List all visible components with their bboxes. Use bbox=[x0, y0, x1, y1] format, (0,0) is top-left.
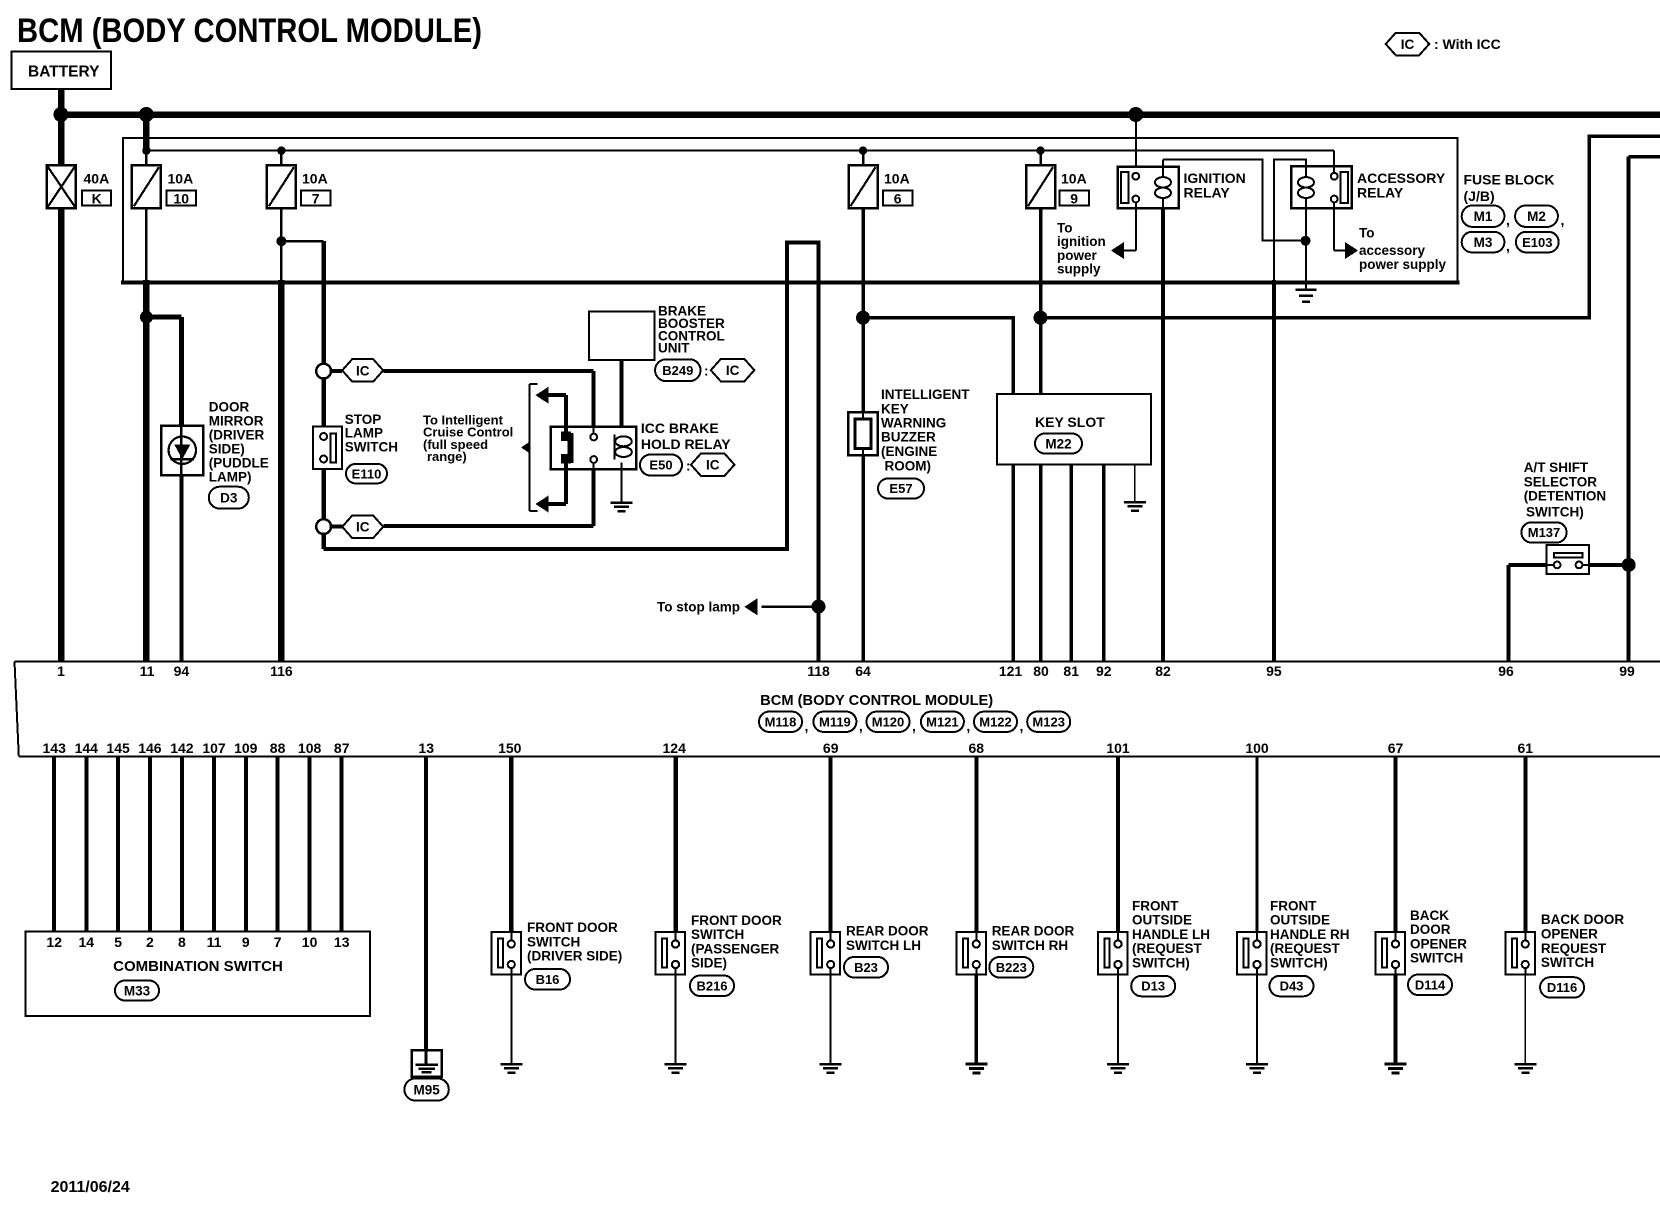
svg-text:10A: 10A bbox=[1061, 171, 1087, 187]
comma 3 bbox=[1506, 238, 1510, 254]
svg-text:To: To bbox=[1359, 226, 1375, 241]
svg-text:9: 9 bbox=[1070, 190, 1078, 206]
svg-text:FRONT DOOR: FRONT DOOR bbox=[527, 920, 618, 935]
fuse 9 10A bbox=[1026, 151, 1089, 209]
connector M121 bbox=[921, 712, 964, 732]
svg-text:IC: IC bbox=[1401, 37, 1415, 52]
svg-text:BCM (BODY CONTROL MODULE): BCM (BODY CONTROL MODULE) bbox=[760, 693, 993, 709]
svg-text:96: 96 bbox=[1498, 663, 1514, 679]
fuse 7 10A bbox=[267, 151, 331, 209]
svg-text:E110: E110 bbox=[352, 466, 382, 481]
svg-text:,: , bbox=[1506, 238, 1510, 254]
svg-text:ignition: ignition bbox=[1057, 234, 1106, 249]
svg-text:IC: IC bbox=[706, 458, 720, 473]
front outside handle LH switch symbol bbox=[1098, 898, 1210, 974]
wire ignition coil top ground link bbox=[1163, 160, 1306, 241]
legend IC with-ICC hexagon bbox=[1386, 33, 1501, 56]
wire fuse7 to pin 116 bbox=[280, 208, 283, 661]
svg-text:accessory: accessory bbox=[1359, 243, 1426, 258]
wire AT selector to pin 96 bbox=[1509, 565, 1547, 662]
svg-text::: : bbox=[704, 364, 709, 379]
wire buzzer to pin 64 bbox=[861, 455, 865, 661]
svg-text:6: 6 bbox=[894, 190, 902, 206]
svg-text:KEY: KEY bbox=[881, 401, 909, 416]
svg-text:99: 99 bbox=[1619, 663, 1635, 679]
svg-text:(PUDDLE: (PUDDLE bbox=[209, 455, 269, 470]
svg-text:SWITCH RH: SWITCH RH bbox=[992, 938, 1068, 953]
wire relay contact top arrow bbox=[536, 387, 566, 432]
comma m2 bbox=[912, 718, 916, 734]
node bus junction fuse9 bbox=[1034, 311, 1048, 325]
wire strip to front outside handle RH bbox=[1256, 757, 1259, 933]
wire key slot pin 81 bbox=[1069, 464, 1073, 661]
colon 1 bbox=[704, 364, 709, 379]
svg-text:M122: M122 bbox=[979, 714, 1012, 729]
connector D3 bbox=[209, 487, 249, 509]
svg-text:143: 143 bbox=[43, 740, 67, 756]
ground rear door switch LH bbox=[820, 1064, 842, 1073]
svg-text:BATTERY: BATTERY bbox=[28, 64, 100, 81]
comma m1 bbox=[859, 718, 863, 734]
node IC tap bottom circle bbox=[316, 519, 331, 534]
svg-text:A/T SHIFT: A/T SHIFT bbox=[1524, 460, 1589, 475]
svg-text:M22: M22 bbox=[1045, 436, 1071, 451]
wire key slot pin 121 bbox=[1011, 464, 1015, 661]
wire main bus to ignition relay contact bbox=[1135, 115, 1137, 175]
wire key slot pin 80 bbox=[1039, 464, 1043, 661]
svg-text:HANDLE LH: HANDLE LH bbox=[1132, 927, 1210, 942]
connector M3 bbox=[1462, 232, 1505, 253]
svg-text:M120: M120 bbox=[872, 714, 905, 729]
svg-text:K: K bbox=[92, 190, 102, 206]
comma 1 bbox=[1506, 212, 1510, 228]
svg-text:(J/B): (J/B) bbox=[1464, 188, 1495, 204]
wire AT selector to pin 99 wire bbox=[1589, 563, 1629, 567]
svg-text:D13: D13 bbox=[1141, 979, 1165, 994]
wire top IC to relay bbox=[330, 371, 594, 427]
wire strip to back door opener switch bbox=[1394, 757, 1398, 933]
svg-text:108: 108 bbox=[298, 740, 322, 756]
rear door switch RH switch symbol bbox=[956, 924, 1074, 975]
back door opener request switch switch symbol bbox=[1505, 912, 1624, 974]
connector M2 bbox=[1515, 206, 1558, 227]
svg-text:7: 7 bbox=[312, 190, 320, 206]
svg-text:144: 144 bbox=[75, 740, 99, 756]
wires strip to combination switch bbox=[54, 757, 342, 932]
label fuse block J/B bbox=[1464, 172, 1555, 205]
svg-text:BUZZER: BUZZER bbox=[881, 430, 936, 445]
svg-text:To stop lamp: To stop lamp bbox=[657, 600, 740, 615]
bracket to intelligent cruise control bbox=[521, 384, 538, 511]
svg-text:E103: E103 bbox=[1522, 235, 1552, 250]
comma m3 bbox=[966, 718, 970, 734]
connector M95 bbox=[404, 1079, 448, 1101]
svg-text:REAR DOOR: REAR DOOR bbox=[846, 924, 929, 939]
svg-text:SWITCH LH: SWITCH LH bbox=[846, 938, 921, 953]
svg-text:87: 87 bbox=[334, 740, 350, 756]
node battery junction bbox=[54, 107, 69, 122]
connector M137 bbox=[1521, 522, 1566, 542]
fuse 6 10A bbox=[849, 151, 913, 209]
svg-text:12: 12 bbox=[46, 934, 62, 950]
wire offpage to pin 99 bbox=[1629, 157, 1660, 662]
svg-text:2: 2 bbox=[146, 934, 154, 950]
svg-text:D116: D116 bbox=[1547, 980, 1577, 995]
colon 2 bbox=[686, 459, 691, 474]
svg-text:LAMP): LAMP) bbox=[209, 469, 252, 484]
svg-text:supply: supply bbox=[1057, 262, 1101, 277]
svg-text:9: 9 bbox=[242, 934, 250, 950]
pin numbers bottom row bbox=[43, 740, 1534, 756]
connector E110 bbox=[346, 464, 387, 484]
combination switch M33 bbox=[25, 932, 370, 1017]
ground M95 bbox=[412, 1050, 442, 1077]
svg-text:13: 13 bbox=[418, 740, 434, 756]
svg-text:DOOR: DOOR bbox=[209, 399, 250, 414]
node to-stop-lamp junction bbox=[812, 600, 826, 614]
wire key slot ground bbox=[1134, 464, 1136, 502]
svg-text:SWITCH: SWITCH bbox=[1410, 951, 1463, 966]
svg-text:SWITCH): SWITCH) bbox=[1526, 505, 1584, 520]
wire B249 to relay coil bbox=[620, 360, 624, 437]
node door mirror branch junction bbox=[140, 311, 153, 324]
stop lamp switch E110 bbox=[313, 412, 398, 469]
svg-text:M3: M3 bbox=[1474, 235, 1493, 250]
connector M118 bbox=[759, 712, 802, 732]
svg-text:RELAY: RELAY bbox=[1184, 185, 1231, 201]
intelligent key warning buzzer E57 bbox=[848, 387, 970, 473]
svg-text:,: , bbox=[1506, 212, 1510, 228]
svg-text:88: 88 bbox=[270, 740, 286, 756]
svg-text:SWITCH): SWITCH) bbox=[1132, 956, 1190, 971]
svg-text:68: 68 bbox=[969, 740, 985, 756]
svg-text:5: 5 bbox=[114, 934, 122, 950]
brake booster control unit B249 bbox=[589, 304, 725, 360]
svg-text:HOLD RELAY: HOLD RELAY bbox=[641, 436, 731, 452]
svg-text:(DRIVER SIDE): (DRIVER SIDE) bbox=[527, 949, 622, 964]
label BCM body control module bbox=[760, 693, 993, 709]
connector B23 bbox=[844, 957, 888, 978]
svg-text:SWITCH): SWITCH) bbox=[1270, 956, 1328, 971]
IC hexagon bottom bbox=[342, 516, 383, 539]
comma m4 bbox=[1020, 718, 1024, 734]
svg-text:SIDE): SIDE) bbox=[209, 441, 245, 456]
connector E103 bbox=[1516, 232, 1559, 253]
svg-text:142: 142 bbox=[170, 740, 194, 756]
ground front outside handle RH bbox=[1246, 1064, 1268, 1073]
svg-text:E50: E50 bbox=[649, 458, 672, 473]
svg-text:,: , bbox=[859, 718, 863, 734]
wire pin 13 to ground M95 bbox=[424, 757, 428, 1051]
svg-text:D114: D114 bbox=[1415, 977, 1446, 992]
svg-text:101: 101 bbox=[1106, 740, 1130, 756]
node fuse6 top bbox=[859, 146, 867, 154]
node fuse10 top bbox=[142, 146, 150, 154]
wire accessory contact to arrow bbox=[1334, 202, 1358, 259]
fuse block frame bbox=[121, 138, 1460, 283]
svg-text:,: , bbox=[805, 718, 809, 734]
wire circle to switch bbox=[321, 379, 326, 428]
node fuse9 top bbox=[1036, 146, 1044, 154]
wire back door opener switch to ground bbox=[1394, 975, 1398, 1065]
door mirror puddle lamp D3 bbox=[161, 399, 269, 484]
svg-text:,: , bbox=[1561, 212, 1565, 228]
svg-text:UNIT: UNIT bbox=[658, 341, 690, 356]
svg-text:(ENGINE: (ENGINE bbox=[881, 444, 937, 459]
svg-text:LAMP: LAMP bbox=[345, 426, 383, 441]
svg-text:M119: M119 bbox=[819, 714, 851, 729]
svg-text:(REQUEST: (REQUEST bbox=[1132, 941, 1203, 956]
wire fuse feed bus bbox=[146, 115, 1334, 151]
wire to stop lamp arrow bbox=[657, 598, 819, 615]
connector D114 bbox=[1408, 975, 1452, 996]
comma 2 bbox=[1561, 212, 1565, 228]
wire strip to back door opener request switch bbox=[1523, 757, 1527, 933]
svg-text:COMBINATION SWITCH: COMBINATION SWITCH bbox=[113, 958, 283, 975]
svg-text:SIDE): SIDE) bbox=[691, 956, 727, 971]
svg-text:80: 80 bbox=[1033, 663, 1049, 679]
key slot M22 bbox=[997, 394, 1151, 465]
svg-text:SELECTOR: SELECTOR bbox=[1524, 474, 1598, 489]
svg-text:power: power bbox=[1057, 248, 1098, 263]
svg-text:13: 13 bbox=[334, 934, 350, 950]
svg-text:STOP: STOP bbox=[345, 412, 382, 427]
svg-text:94: 94 bbox=[174, 663, 190, 679]
svg-text:MIRROR: MIRROR bbox=[209, 413, 264, 428]
ground key slot bbox=[1124, 502, 1146, 511]
svg-text:61: 61 bbox=[1518, 740, 1534, 756]
svg-text:B16: B16 bbox=[536, 972, 560, 987]
svg-text:10A: 10A bbox=[884, 171, 910, 187]
wire main battery bus bbox=[58, 111, 1660, 118]
svg-text:(DETENTION: (DETENTION bbox=[1524, 489, 1607, 504]
connector M123 bbox=[1027, 712, 1070, 732]
wire battery to bus bbox=[58, 89, 65, 115]
ground front door switch driver bbox=[500, 1064, 522, 1073]
label to accessory power supply bbox=[1359, 226, 1447, 273]
wire strip to rear door switch RH bbox=[974, 757, 978, 933]
rear door switch LH switch symbol bbox=[811, 924, 929, 975]
connector B216 bbox=[690, 976, 734, 997]
svg-text:M95: M95 bbox=[413, 1082, 440, 1097]
wire switch to bottom circle bbox=[321, 469, 326, 519]
svg-text:M1: M1 bbox=[1474, 209, 1493, 224]
wire fuse9 down bbox=[1039, 208, 1043, 394]
BCM connector strip bbox=[15, 662, 1660, 757]
svg-text:BACK DOOR: BACK DOOR bbox=[1541, 912, 1624, 927]
wire bus segment A bbox=[863, 318, 1013, 395]
node IC tap top circle bbox=[316, 364, 331, 379]
svg-text:IC: IC bbox=[356, 363, 370, 378]
svg-text:,: , bbox=[1020, 718, 1024, 734]
svg-text:7: 7 bbox=[274, 934, 282, 950]
svg-text:69: 69 bbox=[823, 740, 839, 756]
wire stop lamp return to pin 118 bbox=[324, 243, 819, 662]
wire back door opener request switch to ground bbox=[1524, 975, 1526, 1065]
svg-text:124: 124 bbox=[663, 740, 687, 756]
svg-text:E57: E57 bbox=[889, 481, 912, 496]
back door opener switch switch symbol bbox=[1376, 908, 1468, 975]
svg-text:10: 10 bbox=[173, 190, 189, 206]
connector D13 bbox=[1131, 976, 1175, 997]
connector M119 bbox=[813, 712, 856, 732]
svg-text:11: 11 bbox=[207, 934, 222, 950]
svg-text:ROOM): ROOM) bbox=[885, 459, 932, 474]
svg-text:IC: IC bbox=[726, 363, 740, 378]
svg-text:1: 1 bbox=[57, 663, 65, 679]
wire strip to front door switch passenger bbox=[673, 757, 678, 933]
svg-text:OPENER: OPENER bbox=[1541, 927, 1598, 942]
wire fuse6 down bbox=[861, 208, 865, 412]
svg-text:DOOR: DOOR bbox=[1410, 922, 1451, 937]
wire fuse10 to pin 11 bbox=[145, 208, 148, 661]
svg-text:M137: M137 bbox=[1528, 525, 1561, 540]
connector M1 bbox=[1462, 206, 1505, 227]
AT selector switch symbol bbox=[1546, 545, 1589, 574]
ICC brake hold relay E50 bbox=[551, 420, 732, 469]
wire rear door switch LH to ground bbox=[830, 975, 832, 1065]
svg-text:10: 10 bbox=[302, 934, 318, 950]
svg-text:REAR DOOR: REAR DOOR bbox=[992, 924, 1075, 939]
AT shift selector detention switch M137 bbox=[1524, 460, 1607, 519]
svg-text:(REQUEST: (REQUEST bbox=[1270, 941, 1341, 956]
wire key slot pin 92 bbox=[1102, 464, 1106, 661]
node ignition relay feed junction bbox=[1128, 107, 1143, 122]
svg-text:FUSE BLOCK: FUSE BLOCK bbox=[1464, 172, 1555, 188]
svg-text:10A: 10A bbox=[302, 171, 328, 187]
comma m0 bbox=[805, 718, 809, 734]
svg-text:KEY SLOT: KEY SLOT bbox=[1035, 414, 1105, 430]
svg-text:SWITCH: SWITCH bbox=[345, 439, 398, 454]
node fuse10 feed junction bbox=[139, 107, 154, 122]
svg-text:11: 11 bbox=[140, 663, 155, 679]
accessory relay U-ACC bbox=[1291, 166, 1446, 208]
svg-text:To: To bbox=[1057, 220, 1073, 235]
wire strip to front outside handle LH bbox=[1116, 757, 1120, 933]
wire relay coil to ground bbox=[621, 462, 623, 502]
svg-text:B216: B216 bbox=[696, 978, 727, 993]
svg-text:100: 100 bbox=[1245, 740, 1269, 756]
svg-text:146: 146 bbox=[138, 740, 162, 756]
svg-text:95: 95 bbox=[1266, 663, 1282, 679]
svg-text:64: 64 bbox=[855, 663, 871, 679]
svg-text:BACK: BACK bbox=[1410, 908, 1449, 923]
svg-text:81: 81 bbox=[1063, 663, 1079, 679]
ground accessory relay bbox=[1296, 290, 1317, 302]
node fuse7 top bbox=[277, 146, 285, 154]
wire bus segment B bbox=[1041, 136, 1660, 318]
svg-text:8: 8 bbox=[178, 934, 186, 950]
connector E50 bbox=[640, 455, 682, 476]
svg-text::: : bbox=[686, 459, 691, 474]
svg-text:FRONT: FRONT bbox=[1270, 898, 1317, 913]
wire front door switch passenger to ground bbox=[675, 975, 677, 1065]
connector E57 bbox=[878, 479, 924, 499]
wire strip to rear door switch LH bbox=[829, 757, 833, 933]
label to intelligent cruise control bbox=[423, 413, 513, 465]
date bbox=[51, 1179, 130, 1196]
connector M122 bbox=[974, 712, 1017, 732]
svg-text:B23: B23 bbox=[854, 960, 878, 975]
ground back door opener switch bbox=[1385, 1064, 1407, 1073]
svg-text:118: 118 bbox=[807, 663, 830, 679]
svg-text:M2: M2 bbox=[1527, 209, 1546, 224]
ground front outside handle LH bbox=[1107, 1064, 1129, 1073]
svg-text:D43: D43 bbox=[1280, 979, 1304, 994]
wire inner bus to accessory contact bbox=[1333, 151, 1335, 174]
svg-text:,: , bbox=[966, 718, 970, 734]
fusible link K 40A bbox=[47, 165, 111, 208]
svg-text:SWITCH: SWITCH bbox=[1541, 955, 1594, 970]
IC hexagon E50 bbox=[691, 453, 735, 476]
svg-text:B249: B249 bbox=[662, 363, 693, 378]
connector B223 bbox=[989, 957, 1033, 978]
svg-text:40A: 40A bbox=[84, 171, 110, 187]
wire door mirror to pin 94 bbox=[179, 475, 183, 662]
connector B16 bbox=[525, 969, 570, 990]
ignition relay U-IGN bbox=[1118, 167, 1246, 209]
svg-text:OUTSIDE: OUTSIDE bbox=[1270, 913, 1330, 928]
svg-text:121: 121 bbox=[999, 663, 1023, 679]
svg-text:145: 145 bbox=[106, 740, 130, 756]
svg-text:SWITCH: SWITCH bbox=[527, 934, 580, 949]
svg-text:82: 82 bbox=[1155, 663, 1171, 679]
svg-text:116: 116 bbox=[270, 663, 293, 679]
svg-text:RELAY: RELAY bbox=[1357, 185, 1404, 201]
wire ignition contact to arrow bbox=[1111, 202, 1136, 259]
wire pin95 to accessory coil bbox=[1274, 160, 1306, 662]
svg-text:(DRIVER: (DRIVER bbox=[209, 427, 265, 442]
wire ignition coil to pin 82 bbox=[1161, 208, 1165, 662]
pin numbers top row bbox=[57, 663, 1635, 679]
svg-text:FRONT: FRONT bbox=[1132, 898, 1179, 913]
svg-text:OUTSIDE: OUTSIDE bbox=[1132, 913, 1192, 928]
connector B249 bbox=[655, 359, 700, 381]
svg-text:IC: IC bbox=[356, 520, 370, 535]
connector D116 bbox=[1540, 977, 1584, 998]
svg-text:,: , bbox=[912, 718, 916, 734]
svg-text:M33: M33 bbox=[124, 983, 151, 998]
ground rear door switch RH bbox=[965, 1064, 987, 1073]
wire bottom IC to relay bbox=[330, 469, 594, 526]
wire front outside handle RH to ground bbox=[1256, 975, 1258, 1065]
battery bbox=[12, 52, 112, 90]
svg-text:M121: M121 bbox=[926, 714, 959, 729]
svg-text:2011/06/24: 2011/06/24 bbox=[51, 1179, 130, 1196]
wire accessory coil to ground bbox=[1305, 208, 1307, 289]
IC hexagon B249 bbox=[711, 359, 755, 382]
wire battery to pin 1 bbox=[58, 115, 65, 662]
ground back door opener request switch bbox=[1514, 1064, 1536, 1073]
svg-text:range): range) bbox=[427, 449, 467, 464]
IC hexagon top bbox=[342, 359, 383, 382]
title text bbox=[17, 12, 482, 50]
svg-text:power supply: power supply bbox=[1359, 257, 1447, 272]
wire fuse7 branch to stop lamp switch bbox=[281, 241, 323, 364]
svg-text:WARNING: WARNING bbox=[881, 416, 946, 431]
svg-text:OPENER: OPENER bbox=[1410, 936, 1467, 951]
wire branch to door mirror bbox=[146, 317, 181, 425]
node AT selector junction bbox=[1622, 558, 1636, 572]
svg-text:BCM (BODY CONTROL MODULE): BCM (BODY CONTROL MODULE) bbox=[17, 12, 482, 50]
svg-text:HANDLE RH: HANDLE RH bbox=[1270, 927, 1350, 942]
svg-text:ICC BRAKE: ICC BRAKE bbox=[641, 420, 719, 436]
svg-text:D3: D3 bbox=[220, 491, 238, 506]
wire strip to front door switch driver bbox=[509, 757, 514, 933]
node coil ground junction bbox=[1301, 236, 1311, 246]
svg-text:B223: B223 bbox=[996, 960, 1027, 975]
svg-text:14: 14 bbox=[79, 934, 95, 950]
